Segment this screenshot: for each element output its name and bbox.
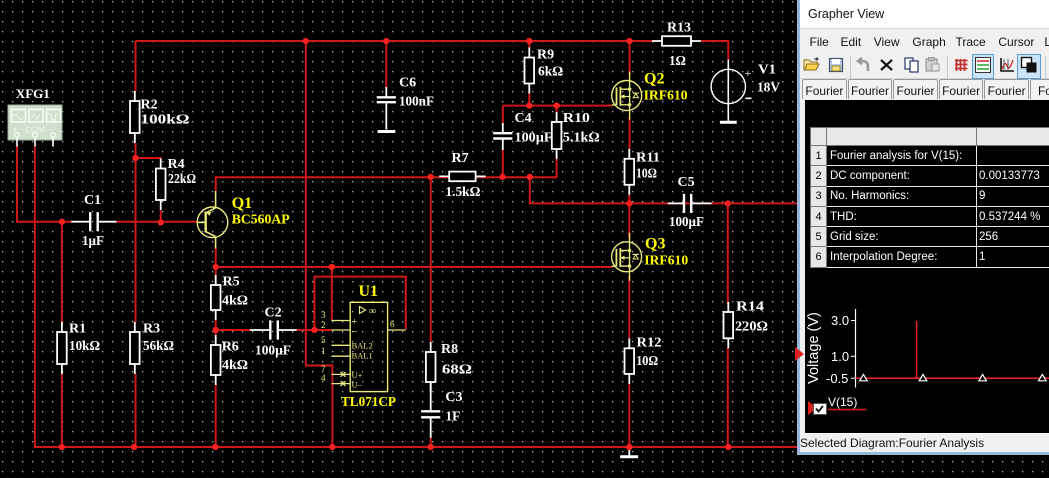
svg-text:R2: R2 <box>141 98 158 113</box>
svg-text:TL071CP: TL071CP <box>341 395 396 410</box>
toolbar icon: save <box>829 59 842 72</box>
wire <box>135 143 137 322</box>
resistor R10 <box>552 111 600 159</box>
svg-text:68Ω: 68Ω <box>442 363 472 378</box>
svg-text:18V: 18V <box>757 81 780 96</box>
toolbar icon: delete X <box>881 60 892 70</box>
svg-text:U–: U– <box>352 380 363 390</box>
svg-text:10Ω: 10Ω <box>636 354 658 369</box>
svg-text:Q3: Q3 <box>645 236 665 253</box>
resistor R14 <box>724 300 769 349</box>
node junction <box>158 219 164 225</box>
node junction <box>329 264 335 270</box>
svg-text:100µF: 100µF <box>255 344 291 359</box>
resistor R6 <box>211 335 248 385</box>
wire <box>727 203 729 304</box>
svg-text:XFG1: XFG1 <box>16 87 50 101</box>
wire <box>135 374 137 447</box>
node junction <box>554 103 560 109</box>
svg-text:2: 2 <box>321 320 326 330</box>
wire <box>215 320 217 335</box>
svg-text:R4: R4 <box>168 157 185 172</box>
svg-text:R5: R5 <box>223 275 240 290</box>
wire <box>216 266 613 268</box>
wire <box>528 94 530 106</box>
svg-text:R14: R14 <box>736 300 764 315</box>
node junction <box>212 444 218 450</box>
node junction <box>626 200 632 206</box>
svg-text:R6: R6 <box>222 340 239 355</box>
wire <box>385 41 387 87</box>
svg-text:R11: R11 <box>636 151 660 166</box>
node junction <box>131 444 137 450</box>
C6 bottom open-end bar <box>378 130 396 133</box>
legend checkbox <box>814 404 827 415</box>
svg-text:C4: C4 <box>515 111 532 126</box>
resistor R5 <box>211 275 248 321</box>
wire <box>117 221 199 223</box>
resistor R2 <box>130 91 190 143</box>
resistor R1 <box>57 322 100 374</box>
wire <box>530 177 797 204</box>
svg-text:C3: C3 <box>445 390 462 405</box>
wire <box>136 158 161 160</box>
node junction <box>526 38 532 44</box>
svg-text:V(15): V(15) <box>828 395 857 409</box>
wire <box>502 150 504 177</box>
svg-text:1µF: 1µF <box>82 234 104 249</box>
svg-text:10Ω: 10Ω <box>636 167 657 182</box>
svg-text:C6: C6 <box>399 76 416 91</box>
node junction <box>725 444 731 450</box>
wire <box>628 384 630 447</box>
svg-text:1Ω: 1Ω <box>669 54 686 69</box>
node junction <box>626 444 632 450</box>
wire <box>528 41 530 48</box>
svg-text:BAL2: BAL2 <box>352 341 373 351</box>
node junction <box>428 444 434 450</box>
svg-text:56kΩ: 56kΩ <box>143 339 174 354</box>
svg-text:–: – <box>351 326 358 337</box>
node junction <box>213 264 219 270</box>
svg-text:100µF: 100µF <box>669 215 704 230</box>
legend arrow <box>808 401 817 415</box>
wire <box>628 276 630 338</box>
wire <box>61 374 63 447</box>
wire <box>701 41 728 60</box>
wire <box>629 118 631 149</box>
wire <box>136 40 653 42</box>
wire <box>628 195 630 204</box>
voltage source V1 18V <box>711 60 780 122</box>
transistor Q3 IRF610 MOSFET <box>612 233 689 281</box>
svg-text:U1: U1 <box>359 283 379 300</box>
svg-text:1: 1 <box>321 346 326 356</box>
resistor R13 <box>652 21 701 70</box>
resistor R3 <box>130 322 174 374</box>
wire <box>306 41 333 447</box>
node junction <box>329 444 335 450</box>
svg-text:22kΩ: 22kΩ <box>168 172 196 187</box>
toolbar icon: axes <box>1001 58 1014 71</box>
resistor R7 <box>439 151 485 200</box>
svg-text:R8: R8 <box>441 342 458 357</box>
resistor R4 <box>156 157 196 210</box>
svg-text:R1: R1 <box>69 322 86 337</box>
wire <box>215 385 217 447</box>
wire <box>629 41 631 75</box>
chart baseline trace V(15) <box>856 377 1049 379</box>
resistor R12 <box>625 336 662 384</box>
svg-text:V1: V1 <box>758 63 776 78</box>
toolbar icon: paste (disabled) <box>926 58 939 72</box>
svg-text:BAL1: BAL1 <box>352 351 373 361</box>
node junction <box>213 327 219 333</box>
svg-text:C2: C2 <box>265 305 282 320</box>
toolbar icon: open <box>804 58 819 71</box>
transistor Q2 IRF610 MOSFET <box>612 71 688 120</box>
wire <box>430 438 432 447</box>
wire <box>628 203 630 238</box>
toolbar icon: undo <box>858 58 868 71</box>
capacitor C4 <box>493 111 552 150</box>
svg-text:100kΩ: 100kΩ <box>141 113 190 128</box>
svg-text:4kΩ: 4kΩ <box>222 358 248 373</box>
wire <box>215 248 217 275</box>
capacitor C6 <box>377 76 434 130</box>
svg-text:4kΩ: 4kΩ <box>222 293 248 308</box>
ground at bottom bus <box>620 447 638 457</box>
svg-text:R10: R10 <box>563 111 590 126</box>
toolbar icon: copy <box>905 58 918 72</box>
svg-text:IRF610: IRF610 <box>644 89 688 104</box>
wire <box>216 329 250 331</box>
svg-text:3.0: 3.0 <box>831 313 849 328</box>
svg-text:1F: 1F <box>445 409 460 424</box>
node junction <box>725 200 731 206</box>
svg-text:5: 5 <box>321 335 326 345</box>
wire <box>502 106 504 123</box>
ground under V1 <box>720 121 737 124</box>
toolbar icon: legend (pressed) <box>972 55 993 79</box>
function generator XFG1 <box>8 87 62 147</box>
wire <box>727 348 729 447</box>
op-amp U1 TL071CP <box>321 283 406 410</box>
svg-text:C1: C1 <box>84 193 101 208</box>
svg-text:1.0: 1.0 <box>831 349 849 364</box>
node junction <box>303 38 309 44</box>
node junction <box>626 38 632 44</box>
wire <box>160 210 162 222</box>
node junction <box>526 103 532 109</box>
svg-text:4: 4 <box>321 373 326 383</box>
toolbar icon: grid <box>955 59 968 71</box>
svg-text:Q2: Q2 <box>644 71 664 88</box>
svg-text:+: + <box>745 66 752 80</box>
svg-text:BC560AP: BC560AP <box>232 213 290 228</box>
svg-text:C5: C5 <box>678 175 695 190</box>
node junction <box>59 444 65 450</box>
svg-text:100µF: 100µF <box>515 131 553 146</box>
node junction <box>499 174 505 180</box>
svg-text:3: 3 <box>321 310 326 320</box>
transistor Q1 BC560AP <box>197 191 290 249</box>
node junction <box>383 38 389 44</box>
svg-text:R7: R7 <box>452 151 469 166</box>
capacitor C1 <box>71 193 116 249</box>
chart y-axis <box>826 309 856 388</box>
resistor R8 <box>426 342 472 392</box>
svg-text:R3: R3 <box>143 322 160 337</box>
capacitor C2 <box>250 305 297 358</box>
svg-text:6kΩ: 6kΩ <box>538 65 563 80</box>
wire <box>430 177 432 342</box>
node junction <box>428 174 434 180</box>
svg-text:Q1: Q1 <box>232 195 252 212</box>
svg-text:R12: R12 <box>637 336 662 351</box>
svg-text:-0.5: -0.5 <box>826 371 848 386</box>
node junction <box>527 174 533 180</box>
node junction <box>311 327 317 333</box>
toolbar icon: overlay (pressed) <box>1017 55 1040 79</box>
wire <box>61 222 63 322</box>
svg-text:R9: R9 <box>537 48 554 63</box>
wire <box>216 159 557 191</box>
svg-text:1.5kΩ: 1.5kΩ <box>445 185 480 200</box>
svg-text:220Ω: 220Ω <box>735 320 768 335</box>
wire <box>503 105 612 107</box>
svg-text:IRF610: IRF610 <box>644 254 688 269</box>
svg-text:∞: ∞ <box>369 306 376 317</box>
wire <box>135 41 137 91</box>
capacitor C3 <box>421 382 462 438</box>
red selection arrow at window edge <box>795 347 815 367</box>
svg-text:R13: R13 <box>667 21 691 36</box>
svg-text:10kΩ: 10kΩ <box>69 339 100 354</box>
svg-text:6: 6 <box>390 319 395 329</box>
wire <box>556 106 558 112</box>
wire <box>331 267 333 320</box>
wire <box>297 329 332 331</box>
node junction <box>132 155 138 161</box>
svg-text:5.1kΩ: 5.1kΩ <box>563 131 600 146</box>
wire <box>35 146 797 447</box>
capacitor C5 <box>668 175 712 230</box>
resistor R11 <box>625 149 661 195</box>
wire <box>315 277 406 330</box>
svg-text:100nF: 100nF <box>399 94 434 109</box>
node junction <box>59 219 65 225</box>
wire <box>17 146 71 222</box>
data point markers <box>860 374 1047 380</box>
svg-text:U+: U+ <box>352 370 363 380</box>
harmonic spike <box>916 321 918 378</box>
resistor R9 <box>525 48 564 94</box>
